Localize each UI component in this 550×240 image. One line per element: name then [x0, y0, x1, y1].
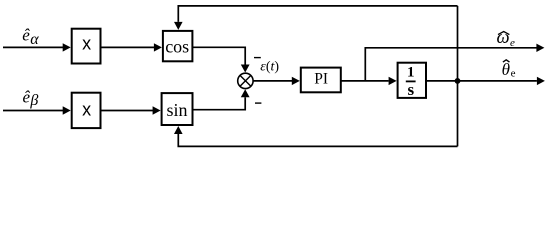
- wire integrator to theta output: [426, 77, 545, 85]
- summer junction circle: [238, 73, 253, 88]
- svg-text:e: e: [510, 37, 515, 49]
- minus sign bottom: [255, 102, 261, 104]
- wire X2 to sin: [101, 106, 161, 114]
- svg-text:PI: PI: [314, 71, 328, 88]
- wire sin to summer: [193, 89, 250, 109]
- wire summer to PI: [253, 77, 300, 85]
- svg-text:1: 1: [407, 64, 415, 80]
- block PI: [301, 68, 341, 93]
- wire top feedback to cos: [174, 6, 458, 30]
- label omega_e: [497, 28, 516, 49]
- wire PI to integrator: [341, 77, 397, 85]
- svg-text:ε(t): ε(t): [260, 60, 279, 75]
- label theta_e: [502, 60, 516, 80]
- svg-text:sin: sin: [166, 100, 187, 120]
- block sin: [162, 93, 193, 125]
- svg-text:α: α: [30, 31, 39, 48]
- wire e_beta input: [3, 106, 71, 114]
- svg-text:ê: ê: [22, 26, 30, 45]
- wire e_alpha input: [3, 43, 71, 51]
- wire bottom feedback to sin: [174, 126, 458, 146]
- wire omega output branch: [365, 44, 544, 81]
- svg-text:cos: cos: [165, 37, 189, 57]
- svg-text:θ: θ: [502, 60, 510, 79]
- svg-text:x: x: [82, 34, 91, 54]
- minus sign top: [254, 57, 261, 59]
- svg-text:s: s: [407, 80, 414, 99]
- svg-text:e: e: [511, 67, 516, 79]
- multiplier X1: [72, 29, 101, 64]
- label e_alpha: [22, 26, 39, 48]
- wire feedback vertical: [457, 6, 459, 147]
- block cos: [163, 31, 193, 61]
- svg-text:β: β: [29, 92, 38, 109]
- wire X1 to cos: [101, 43, 162, 51]
- block integrator 1/s: [398, 63, 426, 99]
- label e_beta: [23, 87, 39, 109]
- svg-text:x: x: [82, 100, 91, 120]
- junction node dot: [455, 78, 461, 84]
- svg-text:ê: ê: [23, 87, 31, 106]
- multiplier X2: [72, 93, 101, 128]
- wire cos to summer: [192, 47, 249, 72]
